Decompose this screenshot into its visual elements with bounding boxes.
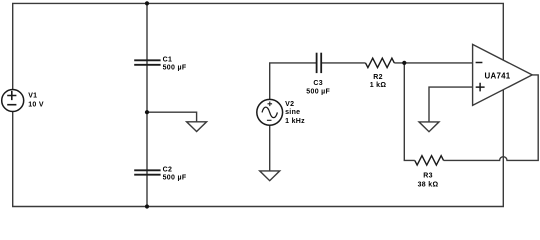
svg-text:500 µF: 500 µF	[163, 65, 187, 72]
wire R3 to op-amp output with hop over V- wire	[444, 75, 539, 160]
svg-text:V1: V1	[28, 92, 37, 99]
capacitor C3	[317, 53, 322, 73]
node A junction R2 / feedback	[402, 61, 406, 65]
svg-text:C1: C1	[163, 56, 173, 63]
svg-text:500 µF: 500 µF	[163, 175, 187, 182]
wire C3 to R2	[321, 62, 365, 64]
svg-text:38 kΩ: 38 kΩ	[418, 181, 439, 188]
svg-text:R3: R3	[423, 173, 433, 180]
ground (below V2)	[260, 171, 280, 181]
ground (middle, between C1 and C2)	[187, 122, 207, 132]
wire V1 down-lead, bottom rail, op-amp V- supply riser	[13, 90, 504, 207]
voltage source V2 (sine)	[257, 99, 283, 125]
wire op-amp non-inverting input to ground	[429, 87, 473, 122]
svg-text:R2: R2	[373, 74, 383, 81]
wire R2 to op-amp inverting input	[394, 62, 472, 64]
wire V2 top lead to C3	[270, 63, 317, 100]
svg-text:10 V: 10 V	[28, 102, 44, 109]
voltage source V1	[2, 90, 24, 112]
svg-text:C2: C2	[163, 166, 173, 173]
op-amp U1 UA741 triangle	[473, 44, 533, 105]
node junction top rail / C1	[145, 1, 149, 5]
svg-text:1 kΩ: 1 kΩ	[370, 82, 387, 89]
wire feedback drop from node A	[404, 63, 414, 160]
svg-text:V2: V2	[285, 101, 294, 108]
resistor R3	[415, 156, 444, 165]
node junction bottom rail / C2	[145, 204, 149, 208]
svg-text:500 µF: 500 µF	[306, 89, 330, 96]
ground (op-amp non-inverting input)	[419, 122, 439, 132]
op-amp non-inverting input mark	[476, 83, 485, 92]
capacitor C2	[134, 170, 160, 174]
wire V2 bottom lead to ground	[269, 125, 271, 171]
wire top rail from V1 up-lead to op-amp V+ supply drop	[13, 3, 504, 89]
svg-text:UA741: UA741	[485, 72, 511, 81]
resistor R2	[366, 58, 395, 67]
wire middle branch through C1 and C2	[146, 3, 148, 206]
op-amp inverting input mark	[476, 62, 483, 64]
svg-text:1 kHz: 1 kHz	[285, 118, 305, 125]
node junction C1 / C2 / middle ground	[145, 110, 149, 114]
svg-text:sine: sine	[285, 109, 300, 116]
svg-text:C3: C3	[313, 80, 323, 87]
wire node to middle ground	[147, 112, 197, 122]
capacitor C1	[134, 60, 160, 65]
